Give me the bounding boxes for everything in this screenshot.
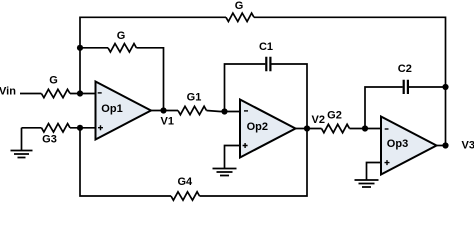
wire ground to G3 xyxy=(22,127,42,129)
wire inner G loop right + drop to V1 xyxy=(136,48,163,111)
resistor G (top feedback) xyxy=(226,13,254,21)
svg-text:G4: G4 xyxy=(177,176,193,188)
wire Op1 output to G1 xyxy=(151,110,178,112)
svg-text:V3: V3 xyxy=(462,140,474,152)
node V2 xyxy=(304,125,310,131)
junction inner-G/summing riser xyxy=(77,45,83,51)
summing node (Op1 -) xyxy=(77,90,83,96)
wire top feedback right segment xyxy=(254,16,446,18)
node Op1 + / G4 xyxy=(77,125,83,131)
wire inner G loop left xyxy=(80,47,108,49)
svg-text:C2: C2 xyxy=(398,63,412,75)
resistor G4 xyxy=(171,192,200,200)
svg-text:G: G xyxy=(235,0,244,12)
svg-text:G: G xyxy=(117,30,126,42)
wire right vertical (V3 to top feedback) xyxy=(445,17,447,146)
resistor G2 xyxy=(322,124,350,132)
op-amp U2 (Op2) xyxy=(240,100,296,158)
wire Op3 output to V3 node xyxy=(437,145,446,147)
wire C1 loop xyxy=(225,64,308,129)
svg-text:V2: V2 xyxy=(312,114,325,126)
junction C2/right riser xyxy=(442,84,448,90)
capacitor C2 xyxy=(404,80,408,94)
svg-text:Op3: Op3 xyxy=(387,138,408,150)
ground (Op2) xyxy=(213,169,237,176)
svg-text:V1: V1 xyxy=(161,115,174,127)
svg-text:G3: G3 xyxy=(42,134,57,146)
op-amp U3 (Op3) xyxy=(381,117,437,175)
wire Vin lead xyxy=(20,93,41,95)
ground (Op3) xyxy=(355,180,379,187)
wire G2 to Op3 inverting input xyxy=(350,128,383,130)
wire G3 to Op1 non-inverting input xyxy=(70,127,97,129)
wire C2 loop xyxy=(365,87,446,129)
wire G4 bottom feedback xyxy=(80,128,307,196)
wire top feedback left segment xyxy=(80,16,226,18)
resistor G1 xyxy=(178,106,207,114)
wire Op3 + input to ground xyxy=(367,163,383,181)
wire left vertical (summing node riser) xyxy=(79,17,81,94)
node V3 xyxy=(442,142,448,148)
resistor G3 xyxy=(42,124,71,132)
svg-text:C1: C1 xyxy=(259,41,273,53)
wire input resistor to Op1 inverting input xyxy=(70,93,97,95)
wire Op2 output to G2 xyxy=(296,128,322,130)
svg-text:G: G xyxy=(49,75,58,87)
ground (G3 left) xyxy=(11,128,33,158)
svg-text:Vin: Vin xyxy=(0,85,16,97)
resistor G (Op1 feedback) xyxy=(108,44,136,52)
wire Op2 + input to ground xyxy=(225,146,242,169)
node Op2 - (C1 tap) xyxy=(221,108,227,114)
node V1 xyxy=(160,107,166,113)
node Op3 - (C2 tap) xyxy=(362,125,368,131)
svg-text:Op1: Op1 xyxy=(101,103,122,115)
svg-text:G2: G2 xyxy=(327,110,342,122)
svg-text:Op2: Op2 xyxy=(247,121,268,133)
capacitor C1 xyxy=(266,57,270,72)
op-amp U1 (Op1) xyxy=(96,82,152,140)
wire G1 to Op2 inverting input xyxy=(207,111,242,112)
svg-text:G1: G1 xyxy=(187,92,202,104)
resistor G (input) xyxy=(41,89,70,97)
